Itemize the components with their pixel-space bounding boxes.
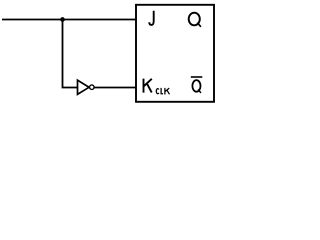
wire branch down and right to inverter input: [63, 20, 78, 88]
inverter U1 bubble: [90, 85, 95, 90]
Q-bar overline: [191, 76, 203, 78]
pin label CLK subscript: [156, 88, 169, 95]
pin label Q: [189, 13, 200, 26]
pin label Q-bar: [192, 80, 200, 92]
pin label K: [144, 79, 152, 93]
pin label J: [149, 11, 153, 25]
wire top horizontal (input to J): [2, 19, 136, 21]
wire inverter output to K input: [94, 87, 136, 89]
inverter U1 triangle: [78, 80, 90, 94]
node junction dot: [60, 17, 65, 22]
flip-flop U2 body: [136, 5, 214, 102]
